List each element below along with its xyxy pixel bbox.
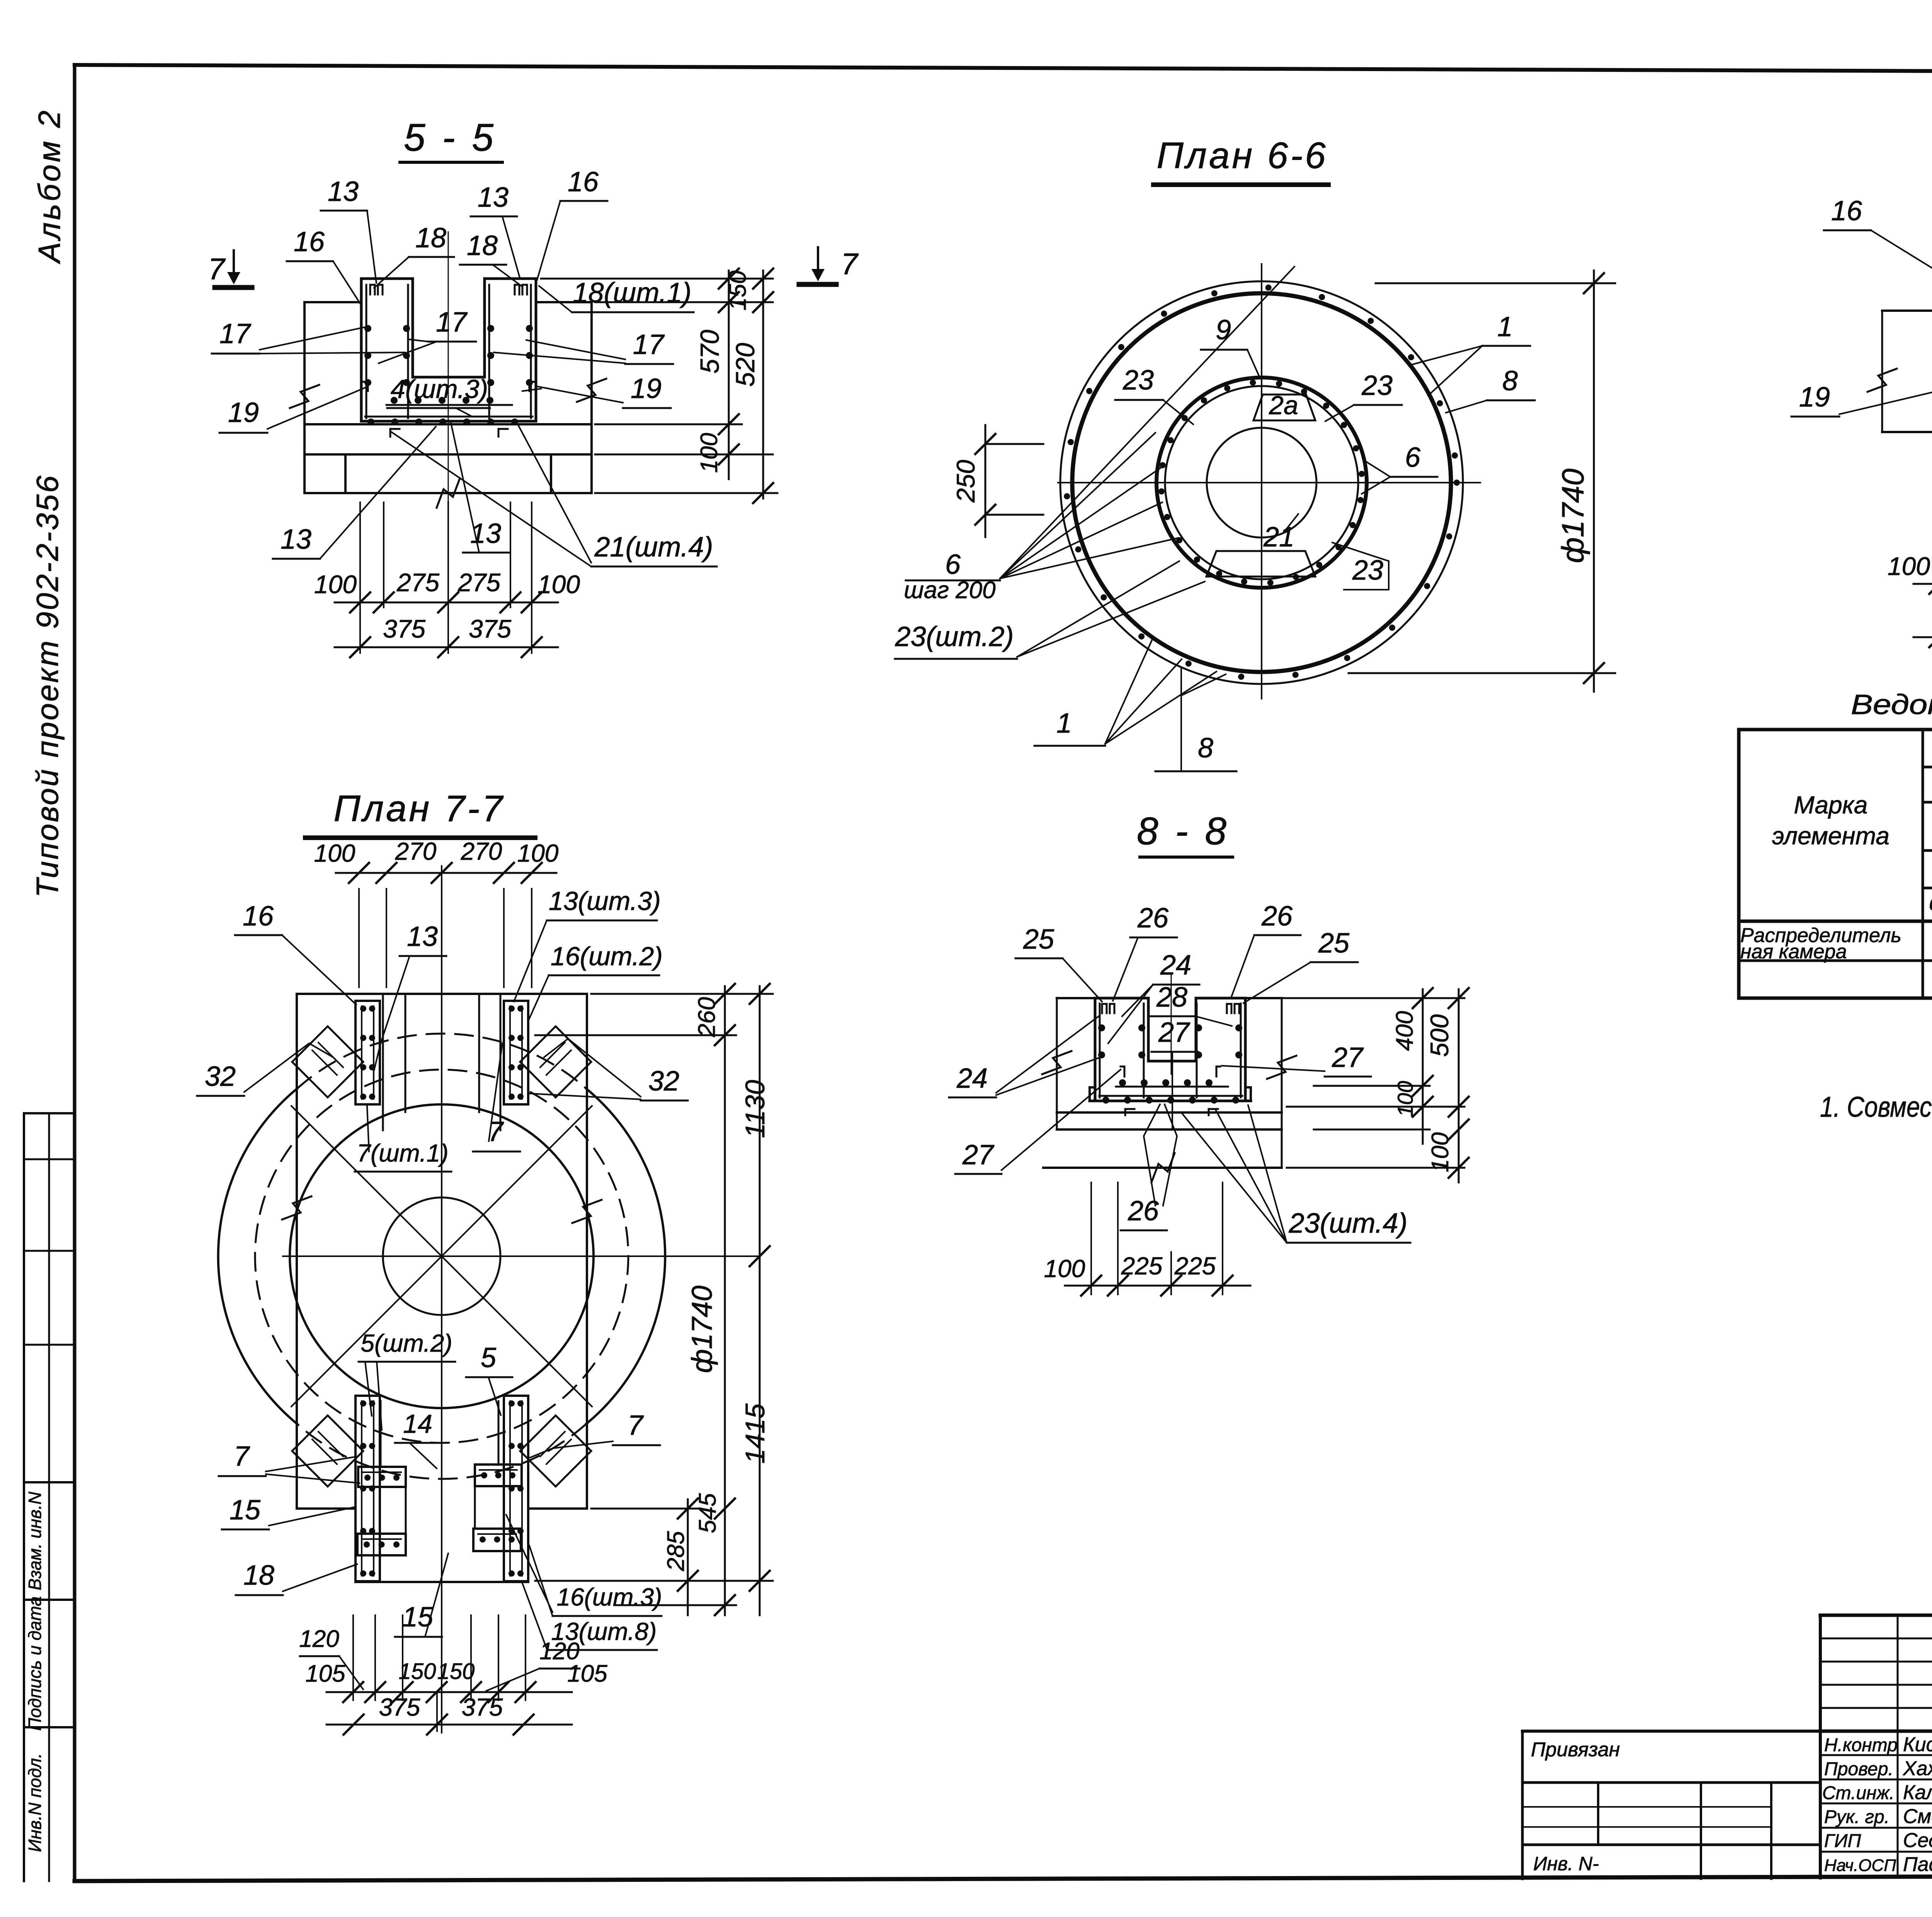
plan 7-7 corner notch bottom-left [292,1415,363,1487]
plan 7-7 outer circle solid side arcs [586,1089,665,1424]
svg-text:27: 27 [1158,1017,1190,1048]
svg-text:23: 23 [1352,555,1383,586]
svg-text:Н.контр: Н.контр [1824,1735,1898,1755]
svg-text:7: 7 [208,252,226,286]
plan 6-6 diameter dimension ф1740 [1376,282,1615,284]
svg-text:План 7-7: План 7-7 [333,788,505,829]
svg-text:100: 100 [1427,1132,1454,1172]
svg-text:25: 25 [1023,924,1054,955]
svg-text:18: 18 [243,1560,274,1591]
section 8-8 bottom rebar [1116,1086,1228,1088]
svg-text:18: 18 [415,223,446,253]
svg-text:100: 100 [1393,1081,1417,1117]
svg-text:32: 32 [205,1061,236,1092]
svg-text:5: 5 [481,1342,497,1373]
svg-text:225: 225 [1121,1252,1163,1280]
section 9-9 ground lines [1882,310,1932,312]
svg-text:17: 17 [436,307,468,338]
svg-text:Хажин: Хажин [1903,1757,1932,1780]
svg-text:Седых: Седых [1903,1829,1932,1852]
svg-text:ная камера: ная камера [1740,941,1847,963]
svg-text:1: 1 [1497,311,1513,342]
svg-text:15: 15 [230,1495,261,1526]
svg-text:Ст.инж.: Ст.инж. [1822,1783,1895,1803]
section 5-5 surrounding concrete [304,301,361,303]
svg-text:13: 13 [478,182,509,213]
plan 7-7 diagonals [291,1106,592,1407]
svg-text:21: 21 [1263,522,1294,553]
svg-text:23: 23 [1122,365,1154,396]
svg-text:1415: 1415 [740,1403,770,1464]
rebar hook mark 19 left wall [363,382,368,391]
svg-text:23: 23 [1361,370,1393,401]
svg-text:15: 15 [402,1602,434,1633]
svg-text:24: 24 [1160,950,1191,981]
svg-text:260: 260 [694,997,720,1037]
svg-text:8: 8 [1502,366,1518,396]
svg-text:375: 375 [379,1693,420,1721]
plan 6-6 wall rings [1060,281,1463,684]
svg-text:ф 10: ф 10 [1929,890,1932,915]
plan 6-6 rebar dots outer ring [1452,452,1458,459]
svg-text:Взам. инв.N: Взам. инв.N [25,1492,45,1590]
svg-text:Ведомость расхода стали на эле: Ведомость расхода стали на элемент, кг. [1851,689,1932,720]
svg-text:Инв. N-: Инв. N- [1533,1853,1599,1874]
break marks 5-5 [290,385,319,408]
svg-text:Нач.ОСП: Нач.ОСП [1824,1856,1896,1875]
svg-text:23(шт.2): 23(шт.2) [895,621,1014,652]
svg-text:1. Совместно с данным листом с: 1. Совместно с данным листом смотреть ли… [1820,1091,1932,1123]
tag box 21 [1206,551,1315,577]
svg-text:225: 225 [1174,1252,1216,1280]
svg-text:Марка: Марка [1794,791,1867,819]
svg-text:18(шт.1): 18(шт.1) [573,277,691,308]
svg-text:375: 375 [469,614,511,643]
plan 7-7 wall cage top-right [504,1001,528,1104]
svg-text:100: 100 [696,433,723,473]
svg-text:105: 105 [305,1660,345,1687]
plan 7-7 cross bar upper-left [358,1467,406,1487]
svg-text:27: 27 [962,1140,995,1170]
section 5-5 concrete channel outline [360,279,363,421]
section 5-5 bottom dimension chain [359,502,361,607]
svg-text:23(шт.4): 23(шт.4) [1288,1208,1407,1239]
table grid [1739,728,1932,731]
svg-text:16: 16 [1831,196,1862,226]
svg-text:План 6-6: План 6-6 [1156,135,1328,176]
svg-text:5 - 5: 5 - 5 [404,116,497,159]
svg-text:270: 270 [461,837,502,865]
section 8-8 ground lines [1057,997,1095,999]
svg-text:270: 270 [395,837,437,865]
svg-text:24: 24 [956,1063,988,1094]
svg-text:8 - 8: 8 - 8 [1137,810,1230,853]
plan 7-7 dashed circle [255,1070,628,1443]
plan 7-7 cross bar upper-right [475,1465,522,1486]
svg-text:27: 27 [1332,1042,1364,1073]
svg-text:17: 17 [219,318,252,349]
svg-text:17: 17 [633,329,665,360]
svg-text:16: 16 [243,901,274,932]
привязан block [1522,1730,1820,1733]
plan 7-7 chamber bore circle [290,1104,594,1408]
svg-text:13: 13 [281,524,311,555]
plan 7-7 corner notch top-left [292,1026,363,1097]
plan 7-7 channel inner faces bottom [380,1401,382,1466]
plan 7-7 square body outline [297,993,587,995]
rebar hook 27 left wall [1121,1067,1124,1077]
plan 7-7 pit bottom edge [355,1581,528,1583]
plan 7-7 corner notch bottom-right [520,1415,591,1487]
svg-text:Подпись и дата: Подпись и дата [25,1596,45,1731]
plan 7-7 wall cage bottom-right [504,1396,528,1581]
plan 6-6 rebar dots inner ring [1359,471,1365,477]
plan 7-7 center opening [383,1197,500,1315]
svg-text:7(шт.1): 7(шт.1) [357,1139,448,1167]
title block outline [1820,1614,1932,1617]
plan 7-7 cross bar lower-left [357,1534,406,1555]
svg-text:100: 100 [1044,1255,1085,1283]
svg-text:150: 150 [437,1659,475,1684]
svg-text:Рук. гр.: Рук. гр. [1824,1807,1889,1827]
sheet border frame [75,65,1932,73]
svg-text:14: 14 [403,1409,432,1439]
svg-text:19: 19 [631,373,662,404]
svg-text:Киселев: Киселев [1903,1733,1932,1756]
centerline 5-5 [448,232,449,514]
revision grid [1820,1638,1932,1640]
section 5-5 bottom mesh rebar [386,404,512,406]
svg-text:Типовой проект 902-2-356: Типовой проект 902-2-356 [30,474,65,898]
svg-text:285: 285 [663,1531,689,1572]
svg-text:100: 100 [314,839,355,867]
svg-text:6: 6 [1405,442,1421,473]
svg-text:19: 19 [228,397,259,428]
plan 7-7 wall cage bottom-left [355,1396,380,1581]
plan 7-7 outer circle hidden arcs dashed [297,1034,586,1089]
svg-text:Альбом 2: Альбом 2 [32,108,66,264]
svg-text:250: 250 [951,460,980,503]
svg-text:ф1740: ф1740 [686,1286,718,1373]
plan 7-7 corner notch top-right [520,1026,591,1097]
svg-text:120: 120 [299,1626,339,1652]
section 8-8 bottom dimension chain [1090,1182,1092,1294]
svg-text:19: 19 [1799,382,1830,413]
svg-text:7: 7 [234,1441,250,1472]
svg-text:13: 13 [328,176,359,207]
svg-text:Пасева: Пасева [1903,1853,1932,1876]
svg-text:Смоляков: Смоляков [1903,1805,1932,1828]
svg-text:100: 100 [314,570,357,599]
svg-text:Привязан: Привязан [1531,1738,1620,1761]
svg-text:375: 375 [462,1693,503,1721]
plan 7-7 bottom dimension chains [352,1615,354,1700]
svg-text:500: 500 [1425,1014,1454,1057]
plan 7-7 right dimensions [591,993,773,995]
svg-text:570: 570 [695,330,724,374]
svg-text:Инв.N подл.: Инв.N подл. [25,1753,45,1852]
rebar hook mark 19 right wall [529,382,534,391]
svg-text:18: 18 [467,230,498,261]
plan 6-6 centerlines [1261,264,1262,699]
plan 7-7 channel inner faces top [382,994,384,1130]
centerline 8-8 [1171,974,1172,1074]
svg-text:Кальченко: Кальченко [1903,1781,1932,1804]
plan 7-7 top dimension chain [358,889,360,987]
section 8-8 right dimensions [1248,997,1464,999]
svg-text:элемента: элемента [1772,822,1889,850]
plan 7-7 cross bar lower-right [473,1529,521,1551]
svg-text:32: 32 [648,1066,679,1097]
svg-text:150: 150 [724,270,751,310]
section 8-8 channel outline [1094,998,1097,1101]
svg-text:21(шт.4): 21(шт.4) [594,532,713,563]
svg-text:Провер.: Провер. [1824,1759,1893,1779]
svg-text:ГИП: ГИП [1824,1831,1861,1851]
svg-text:150: 150 [399,1659,436,1684]
svg-text:275: 275 [457,568,500,597]
rebar hook 27 right wall [1216,1067,1220,1077]
svg-text:6: 6 [945,549,961,580]
svg-text:100: 100 [537,570,580,599]
svg-text:13(шт.3): 13(шт.3) [549,886,661,916]
svg-text:ф1740: ф1740 [1556,469,1590,563]
svg-text:5(шт.2): 5(шт.2) [361,1329,452,1357]
plan 6-6 dimension 250 [985,425,986,537]
svg-text:8: 8 [1198,733,1213,764]
svg-text:1: 1 [1056,708,1072,739]
svg-text:25: 25 [1318,928,1350,959]
margin stamp column boxes [23,1113,25,1881]
svg-text:105: 105 [567,1660,607,1687]
svg-text:7: 7 [628,1410,644,1441]
svg-text:1130: 1130 [740,1080,770,1138]
svg-text:16(шт.2): 16(шт.2) [551,942,663,971]
plan 7-7 centerlines [441,866,442,1733]
svg-text:375: 375 [383,614,425,643]
svg-text:100: 100 [1888,552,1930,580]
section 5-5 rebar cage right wall [488,285,490,418]
plan 6-6 center opening [1207,428,1316,538]
svg-text:275: 275 [396,568,439,597]
svg-text:16: 16 [294,226,325,257]
svg-text:16(шт.3): 16(шт.3) [557,1583,662,1611]
section 8-8 rebar left wall [1099,1004,1101,1097]
svg-text:100: 100 [517,839,559,867]
svg-text:13: 13 [407,921,438,952]
svg-text:545: 545 [694,1493,721,1533]
svg-text:520: 520 [731,343,760,387]
section 5-5 rebar cage left wall [366,285,367,418]
section 8-8 rebar right wall [1196,1004,1198,1097]
svg-text:4(шт.3): 4(шт.3) [391,374,488,404]
svg-text:26: 26 [1261,901,1293,932]
svg-text:400: 400 [1391,1011,1418,1051]
svg-text:16: 16 [568,167,599,197]
svg-text:13(шт.8): 13(шт.8) [551,1618,657,1645]
plan 7-7 wall cage top-left [355,1001,380,1104]
svg-text:26: 26 [1137,903,1169,934]
section 5-5 right dimension lines [541,278,773,280]
svg-text:7: 7 [841,247,859,281]
